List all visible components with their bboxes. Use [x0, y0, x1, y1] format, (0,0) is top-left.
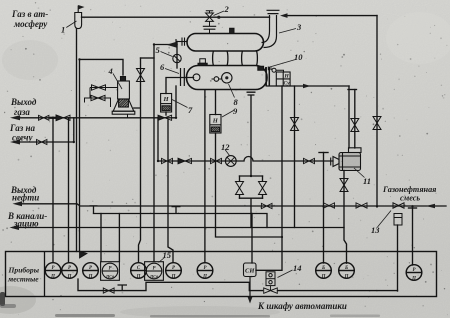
funnel symbol on oil line: [172, 207, 181, 214]
wire: drop from vessel stub through valve 5 to flange 6: [176, 42, 178, 69]
svg-text:Н: Н: [212, 118, 219, 125]
wire: vertical x80.5 from reducer stub down to instrument row: [79, 59, 81, 251]
flame arrester 1: [75, 5, 85, 29]
capped stub on lower drum (left): [198, 59, 207, 66]
svg-text:П: П: [344, 275, 349, 280]
svg-text:свечу: свечу: [12, 133, 34, 143]
signal relay SI: [244, 263, 257, 277]
svg-text:Б: Б: [321, 266, 325, 271]
svg-text:нефти: нефти: [12, 193, 39, 203]
gas line valve A: [39, 115, 49, 120]
svg-text:13: 13: [371, 225, 380, 235]
wire: vent header from device 1 to pipe 3 top: [82, 16, 270, 18]
svg-text:15: 15: [163, 250, 172, 260]
hourglass valve on x141 riser: [137, 69, 145, 82]
svg-text:10: 10: [294, 52, 303, 62]
wire: drain valve header: [240, 175, 263, 177]
svg-text:1: 1: [61, 25, 65, 35]
wire: vertical from gas line tap to instrument P1 (x53): [52, 118, 54, 262]
saddle connector right: [242, 51, 258, 66]
gas line check valve (filled): [56, 115, 64, 121]
gate valve on mixture line (mid): [356, 203, 367, 208]
wire: secondary oil line (y215): [94, 214, 268, 228]
saddle connector left: [213, 51, 228, 66]
sampling flag at vessel stub: [167, 42, 177, 48]
level gauge 7: [161, 94, 172, 113]
gate valve on y161 right: [304, 158, 315, 163]
hourglass valve on x378.5: [373, 117, 381, 130]
wire: tee stem from device 11 nose down to mixture line: [323, 153, 325, 207]
wire: right inlet riser down to gas-oil mixture line: [376, 16, 378, 207]
node: arrow inflow gas-oil mixture: [426, 204, 435, 209]
drain tee cap on lower drum: [247, 92, 256, 95]
svg-text:3: 3: [296, 22, 302, 32]
instrument tags: [50, 74, 416, 282]
solenoid device 14: [264, 272, 278, 294]
wire: leads to boxed instrument 15a: [101, 214, 119, 262]
control line y161: check valve (filled): [178, 158, 185, 164]
svg-text:П: П: [50, 275, 55, 280]
gate valve on mixture line (far left): [261, 203, 272, 208]
node: arrow Vyhod gaza: [10, 115, 20, 120]
oil-gas lower drum: [187, 66, 268, 90]
wire: left drain branch: [239, 176, 241, 198]
wire: SI feed from oil line (x252): [251, 214, 253, 264]
svg-text:ПСд: ПСд: [149, 274, 158, 279]
control line y161: gate valve: [162, 158, 173, 163]
wire: oil outlet / gas-oil mixture main line (y205.5): [16, 204, 446, 206]
flange 6 on lower drum: [181, 68, 185, 86]
wire: controller output down-over-up to valve 11 (x294.5): [294, 86, 296, 228]
wire: transmitter output down to SI (x282): [256, 86, 282, 270]
funnel on inner signal run: [118, 285, 128, 291]
motor control valve 11: [331, 148, 361, 171]
svg-text:Приборы: Приборы: [8, 266, 40, 275]
svg-text:Выход: Выход: [10, 97, 37, 107]
level gauge 9: [210, 115, 221, 134]
arrow to automation cabinet: [249, 277, 251, 300]
svg-text:зацию: зацию: [13, 219, 39, 229]
separator vessel (upper drum): [187, 34, 264, 52]
gate valve on mixture line (left): [324, 203, 335, 208]
regulator base drain stub: [127, 114, 129, 118]
supply stub valve (lower): [85, 95, 111, 107]
svg-text:местные: местные: [7, 275, 39, 284]
node: inlet flow arrow into pipe 3: [280, 13, 288, 18]
valve 2 (relief on vent line): [203, 11, 221, 34]
pressure gauge 8: [212, 73, 233, 83]
instrument P3 boxed: [101, 262, 120, 281]
svg-text:Су: Су: [284, 81, 291, 87]
float circle inside lower drum: [193, 74, 200, 81]
svg-text:П: П: [321, 275, 326, 280]
svg-text:П: П: [67, 275, 72, 280]
valve under gauge 7 (on gas line): [158, 115, 165, 120]
valve 5 (cock): [173, 54, 181, 62]
svg-text:Н: Н: [162, 96, 169, 103]
wire: instrument lead x321.5: [323, 207, 325, 264]
instrument P4: [131, 263, 147, 279]
sensor valve 13: [393, 203, 404, 225]
panel divider: [44, 252, 46, 297]
right end flange of lower drum: [266, 67, 269, 87]
svg-text:Газ на: Газ на: [9, 123, 35, 133]
hourglass valve on x354.8: [351, 119, 359, 132]
svg-text:ПСд: ПСд: [105, 274, 114, 279]
gas line junction bar: [50, 117, 57, 119]
svg-text:П: П: [411, 277, 416, 282]
svg-text:П: П: [88, 275, 93, 280]
wire: gas equalizing line from vessel flange (y86): [267, 85, 349, 87]
instrument P2: [62, 263, 78, 279]
wire: gas outlet line (y118): [14, 117, 176, 119]
funnel symbol on oil line left: [90, 206, 98, 214]
svg-text:11: 11: [363, 176, 371, 186]
wire: drain drop from lower vessel (x251): [250, 96, 252, 176]
wire: sewer line (y229.5): [13, 227, 344, 229]
wire: sample line from separator to instruments (x154): [153, 45, 155, 262]
bypass hourglass valve under device 11: [340, 179, 348, 192]
node: arrow V kanalizaciyu: [10, 225, 20, 230]
wire: device 9 signal down and over to SI relay column: [216, 133, 283, 237]
valve on inner signal run: [103, 288, 114, 293]
svg-text:П: П: [202, 275, 207, 280]
wire: lower vessel bottom drop left (x205): [204, 90, 206, 262]
wire: vertical from regulator supply corner to instrument (x69): [68, 118, 70, 262]
wire: valve 11 bypass drop to instrument (x344): [344, 171, 347, 264]
instrument P1: [45, 263, 61, 279]
wire: control line y161 to actuated valve 11: [158, 157, 333, 162]
flag marker at instrument row: [80, 251, 88, 258]
instrument P10: [406, 265, 422, 281]
node: flow arrow on y86: [303, 84, 311, 89]
supply stub valves to regulator (upper): [90, 85, 118, 98]
svg-text:смесь: смесь: [400, 194, 420, 203]
svg-text:Газ в ат-: Газ в ат-: [11, 9, 48, 19]
wire: tee stem x412.5 to instrument 10: [412, 208, 414, 265]
small capped nozzle on upper drum: [230, 28, 235, 33]
instrument panel strip: [6, 252, 437, 297]
wire: level device 9 tap: [215, 90, 217, 115]
instrument P6: [166, 263, 182, 279]
instrument P8: [316, 263, 332, 279]
svg-text:П: П: [171, 275, 176, 280]
instrument P2b: [83, 263, 99, 279]
wire: drain rejoin bar and drop: [240, 198, 263, 227]
svg-text:2: 2: [224, 4, 230, 14]
svg-text:газа: газа: [14, 107, 30, 117]
node: tee bar above device 11: [319, 152, 328, 154]
drain needle valve left: [236, 182, 244, 195]
flare line valve: [37, 140, 47, 145]
wire: vent drop from device 1 (x77.5): [76, 29, 78, 252]
wire: twin drop pipe to valve 11: [349, 86, 355, 148]
inlet pipe 3 (elbow): [262, 15, 277, 48]
pilot assembly 10 on lower drum: [258, 66, 284, 72]
svg-text:Б: Б: [344, 266, 348, 271]
svg-text:П: П: [136, 275, 141, 280]
node: tee bar on mixture line x412: [409, 207, 417, 209]
control line y161: gate valve 2: [211, 158, 222, 163]
wire: flare connector vertical (x73.8): [73, 118, 75, 142]
rotameter 12: [225, 156, 236, 167]
wire: line from point 5 corner: [154, 44, 177, 46]
node: arrow Gaz na svechu: [10, 140, 20, 145]
svg-text:14: 14: [293, 263, 302, 273]
wire: level gauge 7 upper connection: [166, 78, 194, 94]
instrument P7: [197, 263, 213, 279]
wire: regulator bypass with needle valve (x141): [134, 58, 141, 262]
svg-text:мосферу: мосферу: [13, 19, 48, 29]
level controller box N/Su: [276, 72, 290, 86]
wire: level gauge 7 lower connection: [165, 112, 167, 115]
left nozzle of upper drum: [176, 38, 187, 46]
svg-text:Н: Н: [283, 74, 289, 80]
node: tee bar on drop pipe: [348, 89, 357, 91]
wire: flare line (y142): [14, 141, 74, 143]
drain needle valve right: [259, 182, 267, 195]
node: arrow Vyhod nefti: [13, 201, 23, 206]
wire: drop from gas line to control line (x158): [157, 118, 159, 161]
instrument P5 boxed: [145, 262, 164, 281]
svg-text:СИ: СИ: [245, 268, 255, 275]
pressure regulator 4: [112, 77, 135, 115]
svg-text:12: 12: [221, 142, 230, 152]
svg-text:К шкафу автоматики: К шкафу автоматики: [257, 301, 347, 311]
wire: inner signal run y291: [78, 279, 398, 291]
svg-text:4: 4: [108, 66, 113, 76]
wire: right drain branch: [262, 176, 264, 198]
instrument P9: [339, 263, 355, 279]
wire: regulator top supply line: [80, 59, 124, 75]
wire: valve 13 drop to signal row: [397, 225, 399, 291]
wire: gas line riser to vessel bottom (x176): [175, 86, 177, 118]
wire: inlet top line from right riser to pipe 3: [286, 15, 377, 17]
pipe 3 top flange: [267, 10, 280, 13]
hourglass valve on x294.5: [291, 118, 299, 131]
wire: lead to instrument row (x168): [168, 120, 173, 262]
